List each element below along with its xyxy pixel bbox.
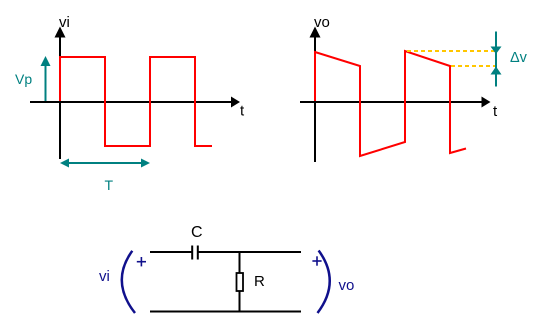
svg-text:T: T bbox=[105, 177, 114, 193]
svg-text:vi: vi bbox=[99, 268, 110, 285]
svg-text:t: t bbox=[493, 103, 498, 120]
svg-text:C: C bbox=[191, 224, 203, 241]
svg-text:t: t bbox=[240, 103, 245, 120]
svg-text:vo: vo bbox=[314, 14, 330, 31]
svg-text:vo: vo bbox=[339, 277, 355, 294]
svg-text:R: R bbox=[254, 273, 265, 290]
svg-text:Vp: Vp bbox=[15, 71, 32, 87]
svg-text:vi: vi bbox=[59, 14, 70, 31]
svg-text:Δv: Δv bbox=[510, 50, 528, 66]
